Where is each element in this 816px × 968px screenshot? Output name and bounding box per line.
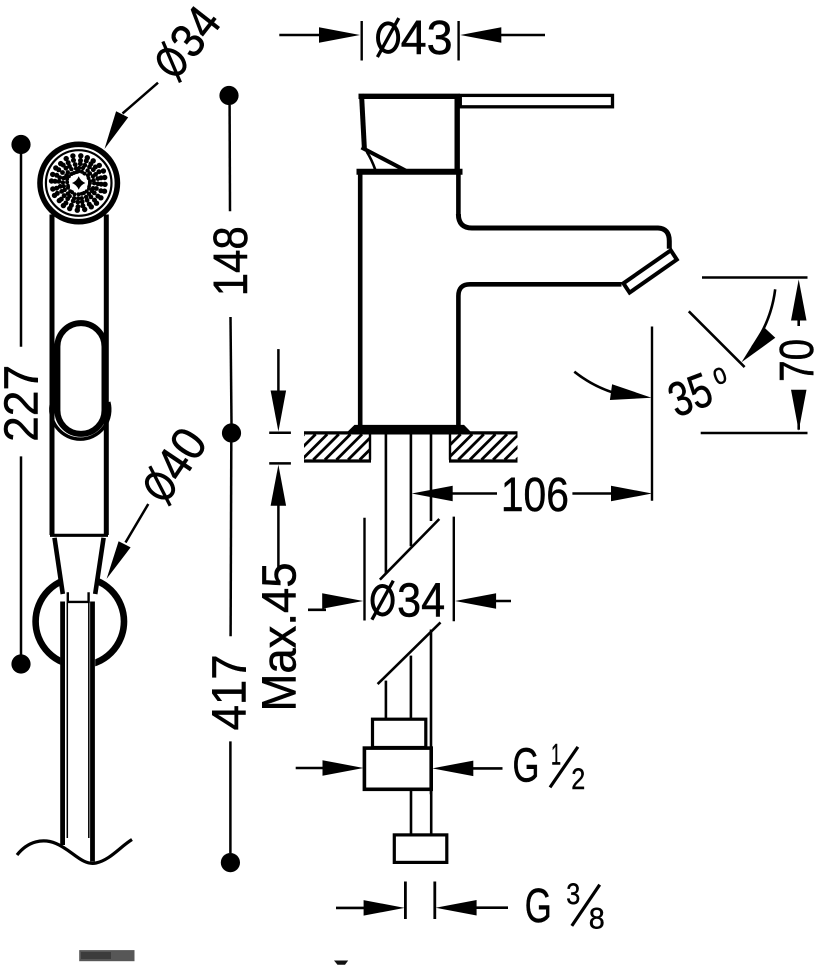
svg-text:148: 148 [204, 226, 258, 296]
svg-text:106: 106 [501, 468, 569, 522]
svg-text:G: G [525, 879, 552, 933]
svg-text:o: o [707, 357, 731, 392]
svg-text:Max.45: Max.45 [252, 563, 306, 712]
svg-text:1: 1 [551, 739, 561, 772]
svg-text:2: 2 [571, 763, 585, 796]
svg-text:3: 3 [566, 878, 580, 911]
svg-text:G: G [513, 739, 540, 793]
svg-text:417: 417 [202, 654, 256, 730]
svg-text:8: 8 [589, 902, 605, 935]
svg-text:34: 34 [397, 574, 445, 628]
svg-text:43: 43 [401, 11, 453, 65]
svg-text:70: 70 [770, 339, 816, 382]
svg-text:227: 227 [0, 365, 49, 442]
